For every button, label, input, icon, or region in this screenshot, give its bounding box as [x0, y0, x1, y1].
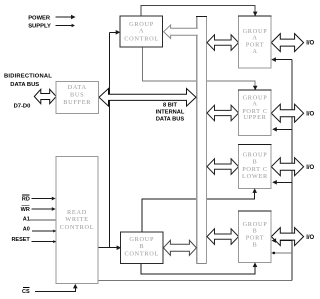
- svg-text:DATA: DATA: [68, 84, 87, 91]
- svg-text:B: B: [139, 243, 144, 250]
- svg-text:A: A: [252, 100, 257, 107]
- svg-text:RESET: RESET: [11, 237, 30, 243]
- svg-text:B: B: [253, 158, 258, 165]
- svg-text:BUFFER: BUFFER: [63, 99, 91, 106]
- svg-text:WRITE: WRITE: [65, 216, 88, 223]
- svg-text:I/O: I/O: [306, 235, 314, 241]
- svg-text:A: A: [252, 48, 257, 55]
- svg-text:B: B: [253, 228, 258, 235]
- svg-text:GROUP: GROUP: [129, 236, 154, 243]
- svg-text:BUS: BUS: [70, 91, 84, 98]
- svg-text:B: B: [253, 241, 258, 248]
- svg-text:A0: A0: [23, 227, 30, 233]
- svg-text:CONTROL: CONTROL: [124, 251, 159, 258]
- svg-text:DATA BUS: DATA BUS: [10, 82, 39, 88]
- svg-text:A1: A1: [23, 217, 30, 223]
- svg-text:I/O: I/O: [306, 111, 314, 117]
- svg-text:8 BIT: 8 BIT: [163, 102, 177, 108]
- svg-text:I/O: I/O: [306, 41, 314, 47]
- svg-text:CONTROL: CONTROL: [124, 35, 159, 42]
- svg-text:SUPPLY: SUPPLY: [28, 24, 51, 30]
- svg-text:POWER: POWER: [28, 15, 51, 21]
- svg-text:WR: WR: [21, 207, 30, 213]
- svg-text:PORT C: PORT C: [242, 166, 268, 173]
- svg-text:A: A: [139, 28, 144, 35]
- svg-text:DATA BUS: DATA BUS: [156, 116, 185, 122]
- svg-text:INTERNAL: INTERNAL: [156, 109, 185, 115]
- svg-text:I/O: I/O: [306, 165, 314, 171]
- svg-text:BIDIRECTIONAL: BIDIRECTIONAL: [4, 74, 52, 80]
- svg-text:READ: READ: [67, 209, 87, 216]
- svg-text:CONTROL: CONTROL: [60, 224, 95, 231]
- svg-text:RD: RD: [22, 196, 30, 202]
- svg-text:UPPER: UPPER: [243, 114, 266, 121]
- svg-text:CS: CS: [22, 289, 30, 295]
- svg-text:LOWER: LOWER: [242, 173, 268, 180]
- svg-text:D7-D0: D7-D0: [14, 104, 31, 110]
